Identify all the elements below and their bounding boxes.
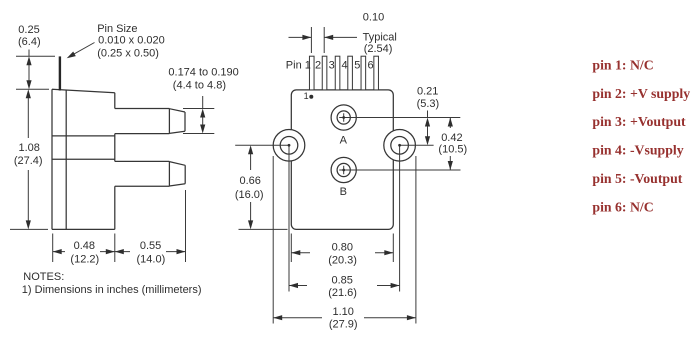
svg-text:(4.4 to 4.8): (4.4 to 4.8) (173, 80, 226, 92)
side view section line upper (52, 135, 115, 137)
side view flange edge line (65, 90, 67, 229)
arrowhead 0.42 down (448, 161, 453, 170)
dim 0.174 leader vertical (202, 96, 204, 109)
svg-text:4: 4 (341, 60, 347, 72)
svg-text:(14.0): (14.0) (137, 253, 166, 265)
svg-text:pin 5: -Voutput: pin 5: -Voutput (592, 171, 682, 186)
right mounting hole inner circle (391, 137, 409, 155)
arrowhead 1.10 left (273, 315, 282, 320)
svg-text:pin 2: +V supply: pin 2: +V supply (592, 86, 690, 101)
port 1 (side view upper tube) (115, 109, 185, 134)
pin size leader line (71, 43, 95, 56)
svg-text:0.80: 0.80 (332, 241, 353, 253)
svg-text:(20.3): (20.3) (328, 255, 357, 267)
port A crosshair and centerline right (339, 113, 460, 122)
svg-text:B: B (340, 186, 347, 198)
svg-text:(27.9): (27.9) (329, 319, 358, 331)
port A inner circle (337, 111, 350, 124)
arrowhead 0.21 down (425, 136, 430, 145)
left mounting hole inner circle (280, 137, 298, 155)
svg-text:NOTES:: NOTES: (23, 271, 64, 283)
dim 0.21 arrow line (427, 111, 429, 141)
svg-text:6: 6 (367, 60, 373, 72)
port B center dot (342, 169, 345, 172)
left mounting ear outer circle (273, 130, 305, 162)
svg-text:(2.54): (2.54) (364, 43, 393, 55)
dim 0.10 arrow tails (289, 36, 358, 38)
pin1 locator dot (309, 95, 313, 99)
svg-text:0.66: 0.66 (239, 175, 260, 187)
side view pin (59, 56, 61, 90)
body edge extension ticks (0.80) (291, 234, 393, 263)
svg-text:1: 1 (304, 91, 309, 101)
arrowhead 0.10 right (302, 35, 311, 40)
arrowhead 1.08 up (26, 89, 31, 98)
arrowhead 0.85 left (289, 283, 298, 288)
dim 0.42 arrow line (449, 118, 451, 171)
svg-text:pin 6: N/C: pin 6: N/C (592, 199, 653, 214)
arrowhead 0.48 right (106, 249, 115, 254)
svg-text:pin 1: N/C: pin 1: N/C (592, 57, 653, 72)
dim 0.48 0.55 extension lines (53, 190, 186, 262)
svg-text:(5.3): (5.3) (417, 98, 440, 110)
right hole centerline down (0.85 extension) (399, 145, 401, 291)
arrowhead 0.66 down (248, 220, 253, 229)
svg-text:0.21: 0.21 (417, 86, 438, 98)
dim 1.10 arrow tails (273, 317, 416, 319)
left hole centerline down (0.85 extension) (288, 145, 290, 291)
svg-text:Typical: Typical (363, 31, 397, 43)
svg-text:(27.4): (27.4) (14, 155, 43, 167)
svg-text:(0.25 x 0.50): (0.25 x 0.50) (97, 48, 159, 60)
arrowhead 1.10 right (407, 315, 416, 320)
port B outer circle (331, 157, 356, 182)
arrowhead 0.55 left (115, 249, 124, 254)
dim 0.55 arrow tails (115, 251, 186, 253)
pin 1 (front) (309, 56, 314, 90)
svg-text:0.10: 0.10 (363, 12, 384, 24)
svg-text:Pin Size: Pin Size (97, 23, 137, 35)
svg-text:0.85: 0.85 (331, 274, 352, 286)
left ear outer extension line (1.10) (272, 156, 274, 324)
port 2 (side view lower tube) (115, 161, 185, 186)
port B crosshair and centerline right (339, 166, 460, 175)
svg-text:5: 5 (354, 60, 360, 72)
pin 5 (front) (361, 56, 366, 90)
arrowhead 0.25 down (26, 80, 31, 89)
dimension 1.08 bottom extension line (10, 228, 48, 230)
arrowhead 0.55 right (177, 249, 186, 254)
svg-text:0.48: 0.48 (74, 240, 95, 252)
port B inner circle (337, 163, 350, 176)
arrowhead 0.21 up (425, 118, 430, 127)
svg-text:3: 3 (329, 60, 335, 72)
svg-text:0.010 x 0.020: 0.010 x 0.020 (98, 35, 165, 47)
right mounting ear outer circle (384, 130, 416, 162)
svg-text:(12.2): (12.2) (70, 253, 99, 265)
right hole centerline right (400, 144, 434, 146)
left hole centerline left (0.66 extension) (235, 144, 289, 146)
dim 0.174 arrow line (202, 114, 204, 128)
svg-text:(6.4): (6.4) (18, 36, 41, 48)
pin 6 (front) (374, 56, 379, 90)
side view body outline (52, 89, 115, 229)
arrowhead 0.174 up (200, 109, 205, 118)
svg-text:1.08: 1.08 (18, 142, 39, 154)
arrowhead 0.174 down (200, 125, 205, 134)
svg-text:Pin 1: Pin 1 (286, 60, 311, 72)
svg-text:1.10: 1.10 (332, 306, 353, 318)
svg-text:pin 3: +Voutput: pin 3: +Voutput (592, 114, 686, 129)
right ear outer extension line (1.10) (415, 156, 417, 324)
dim 0.80 arrow tails (291, 252, 393, 254)
right hole center dot (398, 144, 401, 147)
pin 3 (front) (335, 56, 340, 90)
arrowhead 0.66 up (248, 145, 253, 154)
svg-text:0.42: 0.42 (441, 132, 462, 144)
dim 0.85 arrow tails (289, 285, 400, 287)
svg-text:2: 2 (315, 60, 321, 72)
front view body (291, 90, 393, 230)
dim 0.66 bottom extension (239, 228, 288, 230)
left hole center dot (288, 144, 291, 147)
port A outer circle (331, 105, 356, 130)
svg-text:1) Dimensions in inches (milli: 1) Dimensions in inches (millimeters) (22, 284, 202, 296)
arrowhead 1.08 down (26, 220, 31, 229)
arrowhead 0.25 up (26, 56, 31, 65)
dimension 1.08 arrow line (27, 96, 29, 225)
arrowhead 0.80 right (384, 250, 393, 255)
arrowhead 0.48 left (53, 249, 62, 254)
arrowhead pin size leader (67, 52, 76, 59)
arrowhead 0.42 up (448, 118, 453, 127)
svg-text:(10.5): (10.5) (438, 144, 467, 156)
svg-text:(21.6): (21.6) (328, 287, 357, 299)
dimension 0.25 arrow line (28, 50, 30, 85)
svg-text:pin 4: -Vsupply: pin 4: -Vsupply (592, 143, 683, 158)
svg-text:0.55: 0.55 (140, 240, 161, 252)
pin 2 (front) (322, 56, 327, 90)
dim 0.10 tick lines (311, 27, 324, 53)
side view section line lower (52, 158, 115, 160)
dimension 0.25 extension lines (16, 56, 55, 89)
arrowhead 0.85 right (391, 283, 400, 288)
dim 0.48 arrow tails (53, 251, 115, 253)
svg-text:0.25: 0.25 (18, 24, 39, 36)
port A center dot (342, 116, 345, 119)
dim 0.66 arrow line (250, 151, 252, 224)
arrowhead 0.10 left (324, 35, 333, 40)
svg-text:0.174 to 0.190: 0.174 to 0.190 (168, 67, 238, 79)
pin 4 (front) (348, 56, 353, 90)
svg-text:(16.0): (16.0) (235, 189, 264, 201)
svg-text:A: A (340, 134, 348, 146)
arrowhead 0.80 left (291, 250, 300, 255)
dim 0.174 extension lines (183, 109, 214, 134)
